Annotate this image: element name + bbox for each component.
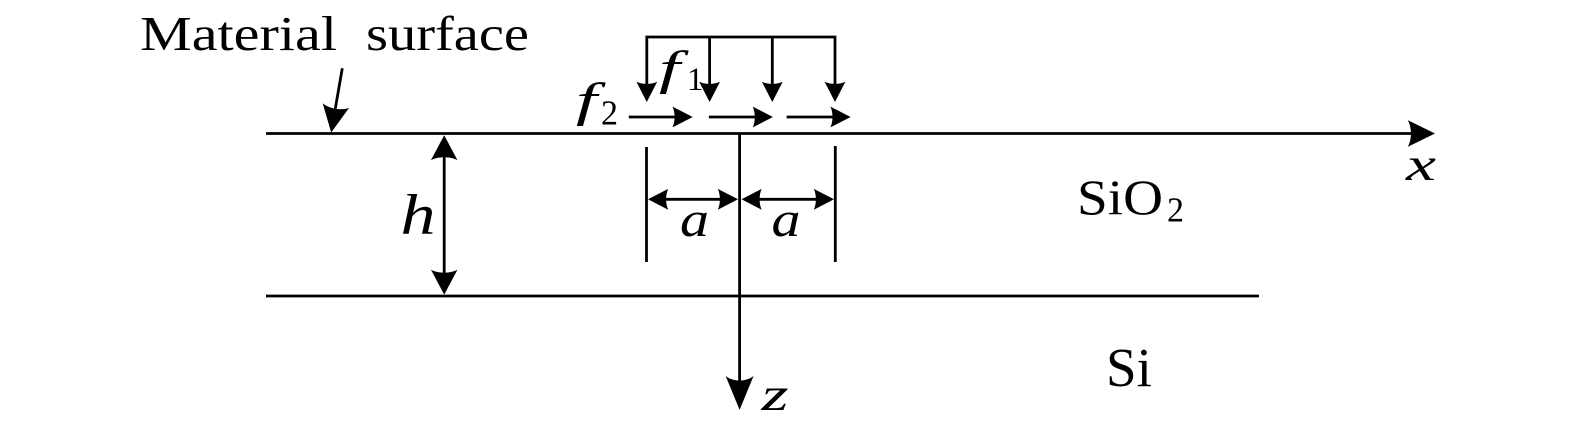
h bottom arrowhead xyxy=(431,270,458,295)
f2 arrowhead 1 xyxy=(673,107,693,128)
svg-text:a: a xyxy=(772,191,801,247)
svg-text:2: 2 xyxy=(601,94,618,133)
wire: top bracket bar of f1 with outer arrow shafts xyxy=(647,37,835,91)
svg-text:h: h xyxy=(401,184,436,247)
a left dim arrowhead left xyxy=(648,189,668,210)
wire: material-surface pointer line xyxy=(334,68,343,119)
wire: f1 down arrow 2 xyxy=(708,37,711,91)
a right dim arrowhead right xyxy=(814,189,834,210)
wire: f1 down arrow 3 xyxy=(771,37,774,91)
wire: f2 arrow 2 shaft xyxy=(709,116,762,119)
wire: left a dimension shaft xyxy=(658,198,728,201)
wire: z-axis vertical line xyxy=(738,134,741,399)
svg-text:x: x xyxy=(1405,139,1437,191)
x-axis arrowhead xyxy=(1408,120,1435,147)
z-axis arrowhead xyxy=(726,376,754,410)
wire: SiO2/Si interface line xyxy=(266,295,1259,298)
svg-text:surface: surface xyxy=(366,6,529,61)
f1 arrowhead 3 xyxy=(762,82,783,102)
svg-text:z: z xyxy=(760,369,788,421)
wire: left a tick xyxy=(645,147,648,262)
pointer arrowhead xyxy=(318,103,349,135)
h top arrowhead xyxy=(431,135,458,160)
svg-text:Si: Si xyxy=(1106,337,1152,398)
svg-text:2: 2 xyxy=(1167,191,1184,230)
wire: right a tick xyxy=(834,146,837,262)
f2 arrowhead 3 xyxy=(830,107,850,128)
wire: material surface / x-axis line xyxy=(266,132,1422,135)
wire: f2 arrow 3 shaft xyxy=(787,116,840,119)
wire: f2 arrow 1 shaft xyxy=(629,116,682,119)
f1 arrowhead 4 xyxy=(825,82,846,102)
svg-text:f: f xyxy=(659,42,689,95)
a left dim arrowhead right xyxy=(718,189,738,210)
f2 arrowhead 2 xyxy=(753,107,773,128)
svg-text:1: 1 xyxy=(687,62,704,98)
wire: right a dimension shaft xyxy=(751,198,824,201)
wire: h dimension shaft xyxy=(443,148,446,282)
svg-text:Material: Material xyxy=(140,6,337,61)
a right dim arrowhead left xyxy=(742,189,762,210)
f1 arrowhead 2 xyxy=(699,82,720,102)
f1 arrowhead 1 xyxy=(636,82,657,102)
svg-text:SiO: SiO xyxy=(1077,169,1163,225)
svg-text:a: a xyxy=(680,191,709,247)
